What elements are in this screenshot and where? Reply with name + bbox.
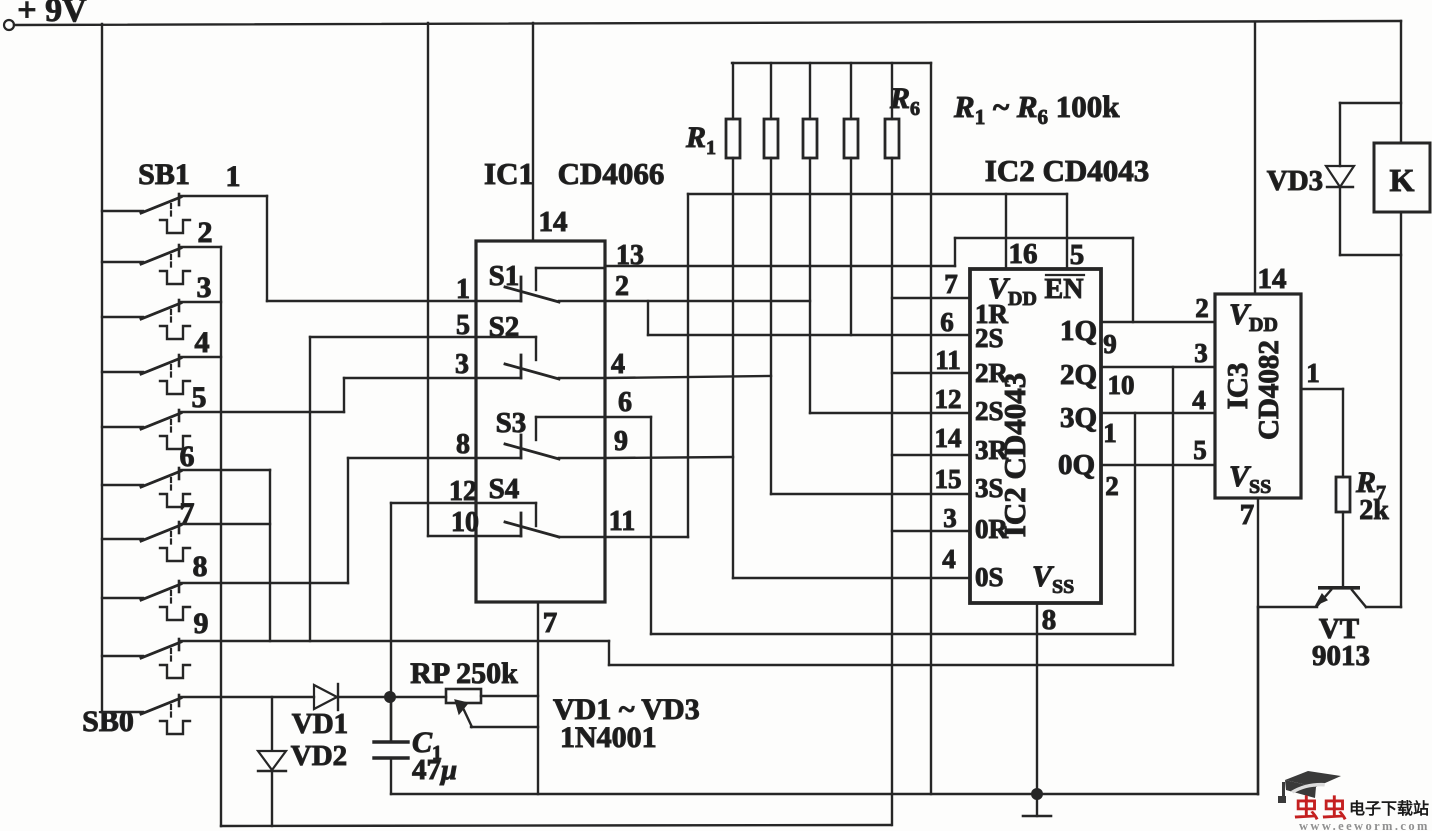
bottom ground rail <box>391 793 1258 795</box>
IC2 internal right labels <box>1058 315 1097 481</box>
svg-text:7: 7 <box>1240 499 1255 531</box>
svg-text:VD2: VD2 <box>291 740 347 772</box>
IC2 pin11 label <box>935 345 961 375</box>
resistor R6 <box>885 63 920 158</box>
svg-text:3: 3 <box>455 349 469 380</box>
svg-text:47μ: 47μ <box>412 754 457 786</box>
wire SB1-5 to IC1 pin3 (S2 in) <box>344 378 476 412</box>
wire R6 leg reset bus <box>891 158 893 825</box>
analog switch S4 <box>476 473 605 537</box>
wire S1 output to R3 leg <box>605 300 810 302</box>
IC2 pin4 label <box>942 544 956 574</box>
svg-text:10: 10 <box>1108 370 1135 400</box>
svg-text:3: 3 <box>1194 338 1208 368</box>
svg-text:0S: 0S <box>975 562 1004 592</box>
svg-text:8: 8 <box>1042 604 1057 636</box>
svg-text:2: 2 <box>198 216 213 249</box>
wire IC1 pin5 (S2 gate) to feedback row <box>310 337 476 641</box>
switch-bank label SB1 <box>138 158 240 193</box>
IC1 pin1 label <box>456 274 470 305</box>
op-amp-box IC1 CD4066 outline <box>476 241 605 602</box>
svg-text:7: 7 <box>944 269 958 299</box>
IC1 pin3 label <box>455 349 469 380</box>
svg-text:14: 14 <box>539 206 568 238</box>
wire R2 leg to 3S row <box>771 158 970 494</box>
analog switch S3 <box>476 407 605 459</box>
svg-text:2Q: 2Q <box>1060 359 1097 391</box>
diode VD1 <box>292 684 348 740</box>
svg-text:1Q: 1Q <box>1060 315 1097 347</box>
IC2 pin8 stub and ground <box>1023 603 1056 816</box>
wire bottom-left reset rail <box>221 825 891 826</box>
relay K box <box>1374 143 1430 212</box>
IC2 pin15 label <box>935 464 962 494</box>
wire SB1-9 / 2Q feedback row <box>180 367 1173 665</box>
svg-text:6: 6 <box>180 440 195 473</box>
svg-text:RP 250k: RP 250k <box>410 657 518 690</box>
svg-text:2S: 2S <box>975 323 1004 353</box>
push-button SB1-1 <box>102 194 267 301</box>
op-amp-box IC3 CD4082 outline <box>1215 294 1301 498</box>
top +9V rail wire <box>14 21 1401 25</box>
transistor VT 9013 <box>1312 586 1370 672</box>
wire 3R row <box>892 454 970 456</box>
wire +9V bus drop to buttons <box>101 24 103 712</box>
wire 1R row <box>892 297 970 299</box>
wire IC1 pin12 (S4 gate) to timing node <box>391 503 476 741</box>
wire 2R row <box>892 372 970 374</box>
svg-text:IC2 CD4043: IC2 CD4043 <box>985 153 1149 188</box>
wire +9V drop to relay K <box>1400 21 1402 143</box>
svg-text:7: 7 <box>543 607 558 639</box>
watermark text <box>1294 795 1430 831</box>
resistor R3 <box>803 63 817 158</box>
wire 0R row <box>892 530 970 532</box>
IC2 internal VSS label <box>1032 560 1074 598</box>
IC1 pin7 stub and label <box>538 602 557 794</box>
svg-text:4: 4 <box>1192 385 1206 415</box>
svg-text:1: 1 <box>1103 418 1117 448</box>
wire emitter to IC3 pin7 net <box>1258 606 1317 608</box>
wire 0Q to IC3 pin5 <box>1101 464 1215 466</box>
svg-text:1: 1 <box>1306 358 1320 388</box>
svg-text:2k: 2k <box>1359 495 1389 526</box>
wire +9V drop to IC3 pin14 <box>1254 22 1256 294</box>
svg-text:15: 15 <box>935 464 962 494</box>
svg-text:电子下载站: 电子下载站 <box>1349 799 1429 818</box>
svg-text:CD4066: CD4066 <box>558 156 665 191</box>
wire VD3 branch bottom <box>1340 254 1401 256</box>
IC1 pin13 label <box>616 240 644 271</box>
IC2 internal VDD EN labels <box>988 272 1084 310</box>
svg-text:2: 2 <box>1195 293 1209 323</box>
push-button SB1-9 and label <box>102 607 209 678</box>
svg-text:3Q: 3Q <box>1060 402 1097 434</box>
IC1 pin6 label <box>618 387 632 418</box>
svg-text:S4: S4 <box>489 473 520 505</box>
wire IC2 pin5 EN stub <box>1067 194 1084 271</box>
power terminal +9V <box>4 0 87 30</box>
svg-text:12: 12 <box>935 384 962 414</box>
svg-text:6: 6 <box>940 307 954 337</box>
push-button SB1-2 and label <box>102 216 221 284</box>
svg-text:2: 2 <box>615 271 629 302</box>
wire right riser to emitter <box>1257 607 1259 794</box>
wire node B: wrong-keys net (SB1-6,7) to row9 <box>269 470 271 641</box>
svg-text:K: K <box>1390 162 1415 198</box>
svg-text:11: 11 <box>935 345 961 375</box>
IC3 internal labels <box>1229 298 1278 498</box>
svg-text:12: 12 <box>449 476 477 507</box>
svg-text:3: 3 <box>943 503 957 533</box>
svg-text:VD3: VD3 <box>1267 165 1323 197</box>
IC3 pin7 stub <box>1240 498 1258 794</box>
svg-text:IC2 CD4043: IC2 CD4043 <box>997 373 1032 537</box>
IC1 pin5 label <box>456 310 470 341</box>
wire S2 output to R2 leg <box>605 376 771 378</box>
svg-text:5: 5 <box>1193 435 1207 465</box>
push-button SB1-6 and label <box>102 440 270 507</box>
wire S4 output to EN line <box>605 194 1067 537</box>
svg-text:SB1: SB1 <box>138 158 190 191</box>
IC3 pin1 output <box>1301 358 1343 389</box>
svg-text:CD4082: CD4082 <box>1253 340 1285 440</box>
IC2 pin12 label <box>935 384 962 414</box>
svg-text:5: 5 <box>1070 239 1085 271</box>
resistor R2 <box>764 63 778 158</box>
IC1 pin11 label <box>609 506 635 537</box>
svg-text:4: 4 <box>611 349 625 380</box>
svg-text:11: 11 <box>609 506 635 537</box>
op-amp-box IC2 CD4043 outline <box>970 269 1101 603</box>
wire SB1-1 to IC1 pin1 (S1 in) <box>267 300 476 302</box>
wire R3 leg to 2S row <box>810 158 970 413</box>
diode VD3 <box>1267 165 1354 255</box>
wire K bottom to collector <box>1400 212 1402 607</box>
svg-text:9: 9 <box>1103 329 1117 359</box>
svg-text:2: 2 <box>1105 471 1119 501</box>
diode VD2 <box>258 697 347 826</box>
wire +9V drop to IC1 pin10 <box>428 23 476 536</box>
svg-text:VD1: VD1 <box>292 708 348 740</box>
wire S1 output jog to 2S row <box>648 301 970 335</box>
push-button SB0 and label <box>82 695 190 738</box>
resistor R7 <box>1336 389 1389 587</box>
label VD1~VD3 1N4001 <box>553 693 700 754</box>
svg-text:3: 3 <box>197 271 212 304</box>
wire ground leg of resistor bar <box>930 63 932 794</box>
wire IC1 pin13 to 1Q row <box>605 238 1133 322</box>
IC3 rotated name <box>1222 340 1285 440</box>
IC2 pin6 label <box>940 307 954 337</box>
IC1 pin10 label <box>451 507 479 538</box>
IC3 pin14 label <box>1258 263 1287 295</box>
IC1 pin12 label <box>449 476 477 507</box>
svg-text:10: 10 <box>451 507 479 538</box>
IC1 pin2 label <box>615 271 629 302</box>
label R1~R6 100k <box>953 89 1120 129</box>
svg-text:9013: 9013 <box>1312 640 1370 672</box>
svg-text:5: 5 <box>192 381 207 414</box>
wire R1 leg to 0S row <box>733 158 970 578</box>
svg-text:IC1: IC1 <box>484 156 534 191</box>
IC2 rotated name <box>997 373 1032 537</box>
wire R4 leg to 2S row <box>850 158 852 335</box>
svg-text:6: 6 <box>618 387 632 418</box>
wire IC2 pin16 VDD stub <box>1006 194 1038 270</box>
wire node A: wrong-keys net (SB1-2,3,4) to bottom rail <box>220 247 222 826</box>
svg-text:8: 8 <box>193 550 208 583</box>
wire VD1 to RP <box>338 696 446 698</box>
svg-text:1: 1 <box>456 274 470 305</box>
wire 1Q to IC3 pin2 <box>1101 321 1215 323</box>
IC1 pin14 label <box>539 206 568 238</box>
svg-text:4: 4 <box>942 544 956 574</box>
svg-text:0Q: 0Q <box>1058 449 1095 481</box>
IC1 pin9 label <box>614 426 628 457</box>
resistor R1 <box>685 63 740 159</box>
capacitor C1 <box>374 697 457 794</box>
svg-text:www.eeworm.com: www.eeworm.com <box>1299 819 1430 831</box>
resistor R4 <box>844 63 858 158</box>
IC2 label <box>985 153 1149 188</box>
svg-text:8: 8 <box>456 429 470 460</box>
push-button SB1-5 and label <box>102 381 344 449</box>
svg-text:14: 14 <box>1258 263 1287 295</box>
svg-text:1: 1 <box>226 160 241 193</box>
wire 3Q to IC3 pin4 <box>1101 412 1215 414</box>
IC2 pin14 label <box>935 423 962 453</box>
IC1 pin4 label <box>611 349 625 380</box>
watermark logo cap <box>1278 771 1341 803</box>
IC2 pin7 label <box>944 269 958 299</box>
junction dot timing node <box>384 691 396 703</box>
svg-text:IC3: IC3 <box>1222 363 1254 410</box>
analog switch S1 <box>476 260 605 302</box>
IC2 internal left labels <box>975 299 1009 592</box>
IC2 pin3 label <box>943 503 957 533</box>
analog switch S2 <box>476 311 605 379</box>
push-button SB1-8 and label <box>102 550 348 620</box>
svg-text:5: 5 <box>456 310 470 341</box>
wire SB0 row to VD1 <box>180 696 314 698</box>
wire 3Q feedback to S3 gate <box>605 413 1135 634</box>
svg-text:9: 9 <box>194 607 209 640</box>
svg-text:1N4001: 1N4001 <box>560 721 657 754</box>
IC1 pin8 label <box>456 429 470 460</box>
svg-text:14: 14 <box>935 423 962 453</box>
IC1 label <box>484 156 664 191</box>
svg-text:9: 9 <box>614 426 628 457</box>
wire S3 output to R1 leg <box>605 457 733 458</box>
potentiometer RP 250k <box>410 657 538 727</box>
svg-text:EN: EN <box>1045 274 1084 305</box>
svg-text:4: 4 <box>195 326 210 359</box>
push-button SB1-7 and label <box>102 497 270 561</box>
push-button SB1-3 and label <box>102 271 221 339</box>
wire +9V drop to IC1 pin14 <box>532 23 534 241</box>
wire VD3 branch top <box>1340 103 1401 166</box>
svg-text:16: 16 <box>1009 238 1038 270</box>
svg-text:SB0: SB0 <box>82 705 134 738</box>
IC2 output pin labels <box>1103 329 1134 501</box>
wire collector to relay <box>1366 606 1401 608</box>
IC3 input pin labels <box>1192 293 1209 465</box>
wire SB1-8 to IC1 pin8 (S3 in) <box>348 458 476 583</box>
push-button SB1-4 and label <box>102 326 221 394</box>
wire 2Q to IC3 pin3 <box>1101 366 1215 368</box>
resistor-bar top (ground side) <box>732 62 931 64</box>
